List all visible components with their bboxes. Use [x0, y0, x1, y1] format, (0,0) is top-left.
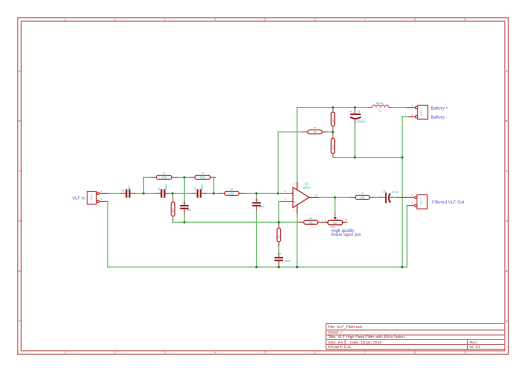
svg-text:C: C: [506, 169, 508, 173]
svg-text:10K: 10K: [332, 144, 335, 149]
svg-text:C7: C7: [278, 252, 282, 256]
svg-text:1K: 1K: [313, 130, 316, 134]
svg-text:B: B: [506, 119, 508, 123]
svg-text:KiCad E.D.A.: KiCad E.D.A.: [328, 344, 352, 349]
svg-text:1uF: 1uF: [187, 208, 192, 212]
svg-text:A: A: [506, 69, 508, 73]
svg-text:Filtered VLF Out: Filtered VLF Out: [432, 200, 465, 205]
svg-text:C4: C4: [182, 201, 186, 205]
svg-text:A: A: [19, 69, 21, 73]
svg-text:C8: C8: [382, 190, 386, 194]
svg-text:47uF: 47uF: [285, 259, 291, 263]
svg-text:10uF: 10uF: [259, 205, 265, 209]
svg-text:Date: 15 jan 2014: Date: 15 jan 2014: [350, 339, 382, 344]
svg-text:470K: 470K: [199, 176, 205, 180]
svg-text:470K: 470K: [161, 176, 167, 180]
svg-text:CONN_2: CONN_2: [421, 197, 423, 206]
svg-text:C1: C1: [121, 189, 125, 193]
svg-text:10K: 10K: [332, 118, 335, 123]
svg-text:C: C: [19, 169, 21, 173]
svg-text:L1: L1: [379, 108, 382, 112]
svg-text:E: E: [506, 269, 508, 273]
svg-text:File: VLF_Filter.sch: File: VLF_Filter.sch: [328, 324, 362, 329]
svg-text:-: -: [294, 192, 295, 196]
svg-text:1M: 1M: [333, 221, 337, 225]
svg-text:46mH: 46mH: [376, 101, 383, 105]
svg-text:linear taper pot: linear taper pot: [332, 232, 362, 237]
svg-text:B: B: [19, 119, 21, 123]
svg-text:22K: 22K: [229, 192, 234, 196]
svg-text:E: E: [19, 269, 21, 273]
svg-text:100: 100: [360, 196, 365, 200]
svg-text:100nF: 100nF: [201, 183, 204, 190]
svg-text:2200uF: 2200uF: [357, 120, 366, 124]
svg-text:+: +: [350, 110, 352, 114]
svg-text:D: D: [19, 219, 21, 223]
svg-text:4K7: 4K7: [278, 233, 281, 238]
svg-text:10uF: 10uF: [128, 185, 131, 191]
svg-text:Battery +: Battery +: [431, 106, 449, 111]
svg-text:CONN_2: CONN_2: [91, 192, 93, 201]
svg-text:Battery -: Battery -: [431, 114, 448, 119]
svg-text:VLF In: VLF In: [72, 195, 85, 200]
svg-text:10K: 10K: [308, 220, 313, 224]
svg-text:4.7uF: 4.7uF: [392, 190, 399, 194]
svg-text:Id: 1/1: Id: 1/1: [470, 344, 482, 349]
svg-text:+: +: [294, 200, 296, 204]
svg-text:100nF: 100nF: [165, 183, 168, 190]
svg-text:CONN_2: CONN_2: [421, 107, 423, 116]
svg-text:33K: 33K: [172, 208, 175, 213]
svg-text:OP27: OP27: [303, 186, 311, 190]
svg-text:D: D: [506, 219, 508, 223]
svg-text:C6: C6: [255, 198, 259, 202]
